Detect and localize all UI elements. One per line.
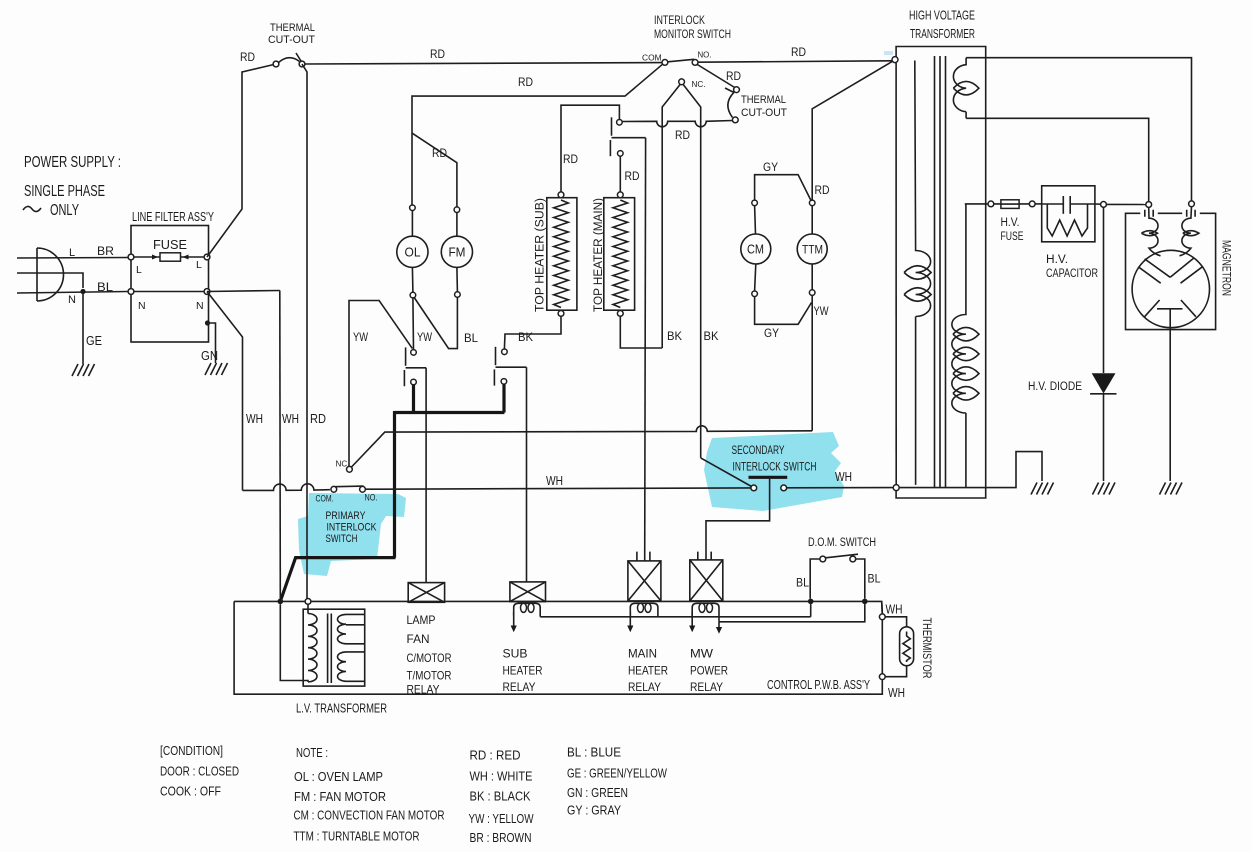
top heater sub R1 <box>547 192 577 316</box>
node HV diode junction <box>1101 202 1107 208</box>
svg-text:TOP HEATER (SUB): TOP HEATER (SUB) <box>535 198 547 312</box>
node thermistor top <box>879 614 885 620</box>
svg-text:POWER: POWER <box>690 664 728 678</box>
svg-text:INTERLOCK SWITCH: INTERLOCK SWITCH <box>733 462 817 474</box>
wire contact A tap to relay1 <box>425 368 427 583</box>
wire secondary actuator stem <box>706 477 770 560</box>
HVT outer box <box>896 47 986 499</box>
wire NO to thermal cutout 2 <box>697 65 734 88</box>
svg-text:H.V.: H.V. <box>1001 217 1020 229</box>
svg-text:SUB: SUB <box>503 647 528 661</box>
fan motor FM <box>441 207 472 297</box>
svg-text:OL : OVEN LAMP: OL : OVEN LAMP <box>294 769 383 784</box>
svg-text:BK: BK <box>704 329 719 343</box>
terminal L right <box>204 254 210 260</box>
wire main coil node riser <box>810 604 812 617</box>
svg-text:BR: BR <box>97 244 114 258</box>
svg-text:FUSE: FUSE <box>1001 231 1024 243</box>
svg-text:MONITOR SWITCH: MONITOR SWITCH <box>654 27 731 41</box>
svg-text:N: N <box>138 300 146 312</box>
wire RD to TTM <box>812 61 892 200</box>
svg-text:D.O.M. SWITCH: D.O.M. SWITCH <box>808 537 876 549</box>
svg-text:CONTROL P.W.B. ASS'Y: CONTROL P.W.B. ASS'Y <box>767 678 870 692</box>
thermal cut-out 1 <box>273 53 305 67</box>
LV transformer T2 <box>280 604 364 686</box>
terminal N left <box>128 289 134 295</box>
wire WH to primary COM <box>243 484 330 491</box>
svg-text:TTM: TTM <box>802 243 823 257</box>
ground chassis 1 <box>1031 483 1054 495</box>
control PWB assy box <box>234 601 882 694</box>
svg-text:THERMAL: THERMAL <box>741 94 786 106</box>
svg-text:SECONDARY: SECONDARY <box>732 445 785 457</box>
svg-text:INTERLOCK: INTERLOCK <box>654 13 705 27</box>
svg-text:NOTE :: NOTE : <box>296 745 328 760</box>
svg-text:WH: WH <box>888 686 905 700</box>
sub relay coil <box>511 603 541 632</box>
svg-text:COM.: COM. <box>316 494 334 504</box>
thermal cut-out 2 <box>725 87 739 123</box>
wire BL from filter N to WH riser <box>207 291 280 292</box>
svg-text:RELAY: RELAY <box>503 680 536 694</box>
svg-text:SWITCH: SWITCH <box>326 533 358 545</box>
svg-text:RD: RD <box>240 50 255 64</box>
svg-text:RD: RD <box>563 152 578 166</box>
wire RD cutout2 to heater contact <box>622 121 732 127</box>
svg-text:FAN: FAN <box>407 632 430 646</box>
svg-text:FM : FAN MOTOR: FM : FAN MOTOR <box>294 789 386 804</box>
door contact C (main heater) <box>610 117 645 156</box>
svg-text:GY : GRAY: GY : GRAY <box>567 803 621 818</box>
wire NC V legs <box>662 84 680 348</box>
wire GE down <box>82 292 84 365</box>
svg-text:YW : YELLOW: YW : YELLOW <box>469 811 535 826</box>
LVT core <box>328 614 332 684</box>
node GN dot <box>205 320 210 325</box>
svg-text:RELAY: RELAY <box>690 680 723 694</box>
wire sub heater top riser <box>561 105 619 192</box>
wire NC leg diagonal into secondary left contact <box>701 458 752 487</box>
lamp OL <box>397 205 428 298</box>
sub heater relay <box>510 582 546 602</box>
wire cord middle (GE) <box>17 273 83 288</box>
legend condition block <box>160 743 239 799</box>
LVT primary coil <box>308 614 317 682</box>
svg-text:CAPACITOR: CAPACITOR <box>1046 268 1098 280</box>
LVT secondary upper <box>338 614 365 643</box>
svg-text:RD: RD <box>726 69 741 83</box>
svg-text:RD: RD <box>518 75 533 89</box>
wire WH primary NO to secondary <box>365 488 751 489</box>
svg-text:LINE FILTER ASS'Y: LINE FILTER ASS'Y <box>132 210 214 224</box>
svg-text:BK: BK <box>667 329 682 343</box>
ground HV diode <box>1093 483 1116 495</box>
svg-text:PRIMARY: PRIMARY <box>326 510 367 522</box>
svg-text:RD: RD <box>815 183 830 197</box>
wire TTM return to y430 <box>811 295 813 430</box>
svg-text:C/MOTOR: C/MOTOR <box>407 651 452 665</box>
convection motor CM <box>741 200 771 297</box>
svg-text:H.V.: H.V. <box>1046 254 1068 266</box>
svg-text:DOOR : CLOSED: DOOR : CLOSED <box>160 764 239 779</box>
svg-text:BK: BK <box>518 330 533 344</box>
svg-text:YW: YW <box>814 304 830 318</box>
ground GE <box>72 364 95 376</box>
svg-text:GN : GREEN: GN : GREEN <box>567 785 628 800</box>
svg-text:WH: WH <box>886 603 903 617</box>
svg-text:WH: WH <box>546 474 563 488</box>
svg-text:THERMAL: THERMAL <box>270 22 315 34</box>
node RD terminal <box>305 599 311 605</box>
svg-text:TOP HEATER (MAIN): TOP HEATER (MAIN) <box>593 198 605 312</box>
top heater main R2 <box>604 192 635 316</box>
anode circle <box>1132 250 1209 327</box>
wire HV secondary to fuse <box>965 203 988 205</box>
svg-text:COM.: COM. <box>642 53 664 63</box>
node WH dot heavy bus <box>278 599 284 605</box>
wire PWB right to thermistor top <box>881 601 884 614</box>
svg-text:CM : CONVECTION FAN MOTOR: CM : CONVECTION FAN MOTOR <box>294 808 445 823</box>
heavy door sense bus <box>280 384 504 601</box>
HVT filament winding <box>953 58 966 119</box>
label MW POWER RELAY <box>690 647 728 695</box>
svg-text:TRANSFORMER: TRANSFORMER <box>910 27 975 41</box>
wire WH secondary right to chassis <box>787 487 894 489</box>
svg-text:GE: GE <box>86 333 102 348</box>
svg-text:CUT-OUT: CUT-OUT <box>741 107 787 119</box>
svg-text:FUSE: FUSE <box>153 238 187 252</box>
node magnetron filament left <box>1146 202 1152 208</box>
svg-text:[CONDITION]: [CONDITION] <box>160 743 223 758</box>
wire node to magnetron filament node <box>1106 203 1145 205</box>
svg-text:NO.: NO. <box>365 493 378 503</box>
mw relay coil <box>689 603 722 634</box>
svg-text:L: L <box>136 264 142 276</box>
svg-text:TTM : TURNTABLE MOTOR: TTM : TURNTABLE MOTOR <box>294 829 420 844</box>
label SUB HEATER RELAY <box>503 647 543 695</box>
magnetron V1 <box>1126 207 1216 330</box>
svg-text:T/MOTOR: T/MOTOR <box>407 669 452 683</box>
svg-text:GY: GY <box>763 160 778 174</box>
svg-text:HEATER: HEATER <box>503 664 543 678</box>
svg-text:WH: WH <box>246 412 263 426</box>
wire filament top to magnetron right <box>966 58 1191 201</box>
svg-text:RD: RD <box>430 47 445 61</box>
svg-text:GE : GREEN/YELLOW: GE : GREEN/YELLOW <box>567 766 668 781</box>
svg-text:POWER SUPPLY :: POWER SUPPLY : <box>24 154 121 171</box>
label MAIN HEATER RELAY <box>628 647 668 695</box>
wire mw coil to dom node <box>719 604 865 622</box>
HVT core lines <box>935 56 946 487</box>
LVT secondary lower <box>338 652 365 681</box>
svg-text:RD: RD <box>625 169 640 183</box>
filament feedthrough ticks left <box>1145 210 1153 217</box>
svg-text:HEATER: HEATER <box>628 664 668 678</box>
svg-text:RD: RD <box>791 45 806 59</box>
main heater relay <box>628 552 661 601</box>
wire WH riser from filter <box>279 291 282 600</box>
legend note block <box>294 745 445 844</box>
wire cutout1 to monitor COM <box>305 63 662 64</box>
relay 1 lamp/fan <box>408 583 444 603</box>
svg-text:RD: RD <box>310 412 326 426</box>
wire N to WH riser <box>207 292 243 491</box>
HV diode D1 <box>1028 207 1117 481</box>
svg-text:FM: FM <box>449 246 466 260</box>
highlight smear near HVT junction <box>884 51 893 55</box>
filament feedthrough ticks right <box>1187 210 1195 217</box>
svg-text:YW: YW <box>417 330 433 344</box>
primary interlock switch <box>316 486 378 503</box>
LVT primary feed <box>307 604 309 613</box>
wire FM to OL (YW) <box>414 297 457 348</box>
svg-text:MW: MW <box>690 647 714 661</box>
svg-text:ONLY: ONLY <box>50 202 79 219</box>
ground GN <box>205 363 228 375</box>
svg-text:RELAY: RELAY <box>407 683 440 697</box>
HV capacitor C1 <box>1042 186 1098 280</box>
svg-text:SINGLE PHASE: SINGLE PHASE <box>24 183 105 200</box>
svg-text:WH: WH <box>282 412 299 426</box>
wire cord L <box>17 257 128 260</box>
node N junction dot <box>80 289 85 294</box>
wire capacitor to diode node <box>1095 203 1101 205</box>
wire chassis bus to ground <box>899 452 1042 488</box>
svg-text:BL: BL <box>868 574 882 586</box>
svg-text:OL: OL <box>405 246 421 260</box>
wire main heater bottom BK <box>620 316 662 348</box>
svg-text:L: L <box>69 247 75 259</box>
wire magnetron cathode to ground <box>1169 328 1171 481</box>
svg-text:YW: YW <box>353 330 369 344</box>
high voltage transformer T1 <box>892 9 986 499</box>
svg-text:H.V. DIODE: H.V. DIODE <box>1028 381 1082 393</box>
HVT junction node RD <box>892 57 898 63</box>
LVT primary bottom wire <box>280 604 308 682</box>
svg-text:L: L <box>196 259 202 271</box>
wire NO to HVT <box>698 61 892 62</box>
filament coil right <box>1180 207 1192 256</box>
door contact A (lamp/fan) <box>404 347 426 386</box>
svg-text:BL: BL <box>97 280 113 294</box>
node thermistor bottom <box>879 674 885 680</box>
wire GY top loop <box>755 175 811 201</box>
HVT left edge lower <box>895 63 897 485</box>
AC tilde symbol <box>23 206 41 211</box>
main relay coil <box>627 603 658 632</box>
svg-text:RD : RED: RD : RED <box>470 748 521 763</box>
highlight secondary interlock switch <box>704 432 844 511</box>
wire fuse line <box>131 256 207 258</box>
terminal L left <box>128 254 134 260</box>
svg-text:COOK : OFF: COOK : OFF <box>160 784 221 799</box>
wire sub heater bottom BK <box>504 316 561 349</box>
svg-text:N: N <box>68 294 76 306</box>
HVT secondary winding <box>952 204 966 487</box>
svg-text:CM: CM <box>747 243 764 257</box>
wire OL bottom to contact A <box>412 298 415 350</box>
wire filament bottom to magnetron left <box>966 118 1149 201</box>
node dot 2 <box>862 599 868 605</box>
fuse F1 <box>160 253 181 261</box>
legend colors column 1 <box>469 748 535 846</box>
node dot 1 <box>808 599 814 605</box>
svg-text:BK : BLACK: BK : BLACK <box>470 789 531 804</box>
power plug <box>37 248 64 301</box>
svg-text:L.V. TRANSFORMER: L.V. TRANSFORMER <box>296 702 387 716</box>
svg-text:THERMISTOR: THERMISTOR <box>920 618 934 679</box>
node magnetron filament right <box>1189 201 1195 207</box>
DOM switch <box>796 537 881 599</box>
wire contact C to main heater <box>619 156 621 192</box>
line filter assy box <box>131 226 209 343</box>
wire N through filter <box>131 291 207 293</box>
HV fuse F2 <box>988 200 1035 243</box>
wire RD top bus to COM <box>302 64 307 599</box>
terminal N right <box>204 289 210 295</box>
fuse arrow left <box>152 255 158 260</box>
svg-text:NO.: NO. <box>698 50 712 60</box>
mw power relay <box>690 552 723 601</box>
turntable motor TTM <box>797 200 827 295</box>
filament coil left <box>1149 207 1161 255</box>
svg-text:BL: BL <box>464 331 478 345</box>
svg-text:RELAY: RELAY <box>628 680 661 694</box>
svg-text:BL: BL <box>796 578 810 590</box>
fuse arrow right <box>183 255 189 260</box>
wire GY bottom loop <box>755 297 812 325</box>
wire y430 to primary NC <box>352 426 813 467</box>
svg-text:RD: RD <box>432 146 447 160</box>
primary interlock NC terminal <box>347 466 353 472</box>
label PRIMARY INTERLOCK SWITCH <box>326 510 378 545</box>
wire contact B tap to sub relay <box>526 367 528 582</box>
secondary interlock switch <box>732 445 817 491</box>
interlock monitor switch <box>642 13 731 89</box>
svg-text:CUT-OUT: CUT-OUT <box>268 34 315 46</box>
svg-text:N: N <box>196 300 204 312</box>
wire YW to primary NC <box>349 301 412 467</box>
svg-text:NC.: NC. <box>692 79 706 89</box>
svg-text:INTERLOCK: INTERLOCK <box>327 522 378 534</box>
wire FM branch <box>412 133 457 207</box>
wire L to thermal cutout (RD riser) <box>207 64 276 257</box>
wire fuse to capacitor <box>1035 203 1042 205</box>
legend colors column 2 <box>567 745 668 818</box>
door contact B (sub heater) <box>494 347 526 386</box>
svg-text:LAMP: LAMP <box>407 613 436 627</box>
svg-text:BR : BROWN: BR : BROWN <box>470 830 532 845</box>
svg-text:MAGNETRON: MAGNETRON <box>1220 240 1234 296</box>
ground magnetron <box>1160 483 1183 495</box>
label LAMP FAN C/MOTOR T/MOTOR RELAY <box>407 613 452 697</box>
wire cord N <box>17 292 128 294</box>
svg-text:WH: WH <box>835 470 852 484</box>
wire contact C tap to main relay <box>644 138 647 561</box>
power supply text <box>24 154 121 219</box>
svg-text:MAIN: MAIN <box>628 647 657 661</box>
HVT primary winding <box>915 61 931 485</box>
svg-text:GN: GN <box>201 348 218 363</box>
thermistor RT <box>885 617 913 677</box>
highlight primary interlock switch <box>298 493 406 576</box>
svg-text:GY: GY <box>764 326 779 340</box>
wire GN <box>208 323 216 363</box>
wire sub coil to main coil <box>540 616 811 618</box>
svg-text:WH : WHITE: WH : WHITE <box>470 769 533 784</box>
svg-text:HIGH VOLTAGE: HIGH VOLTAGE <box>909 9 975 23</box>
svg-text:BL : BLUE: BL : BLUE <box>567 745 621 760</box>
anode vanes <box>1138 258 1203 317</box>
wire OL riser RD <box>412 64 663 205</box>
chassis node WH <box>893 485 899 491</box>
svg-text:RD: RD <box>675 128 690 142</box>
